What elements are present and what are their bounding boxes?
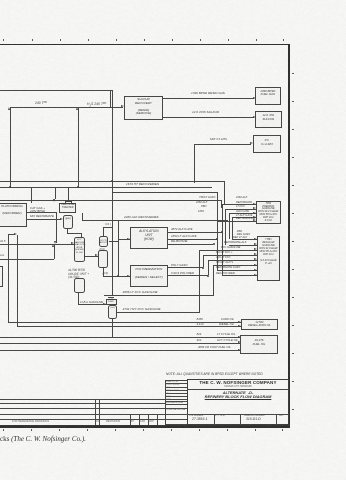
label mix reformate [30,215,54,218]
vessel under gas plant [108,305,117,319]
label C4 [105,223,110,226]
vessel FCC fractionator [74,237,86,261]
wire poly feed y276.1 [103,276,130,277]
wire LPG riser [194,144,195,183]
box polymerization unit [130,265,168,288]
wire splitterA out to bus [109,241,118,242]
wire regular row7 [217,270,257,271]
wire bus line3 y191.8 [112,192,217,193]
wire alkylate out 1 [168,232,222,233]
label above regular fan [237,231,253,237]
wire alkylate out 3 [168,244,213,245]
wire cat-gas drop x56 [56,212,57,244]
caption below sheet [0,435,86,443]
wire fan vertical b [203,255,204,268]
wire platformer feed drop [31,187,32,203]
title alternate [188,391,288,394]
wire bus line4 y200.3 [0,200,221,201]
vessel C4 splitter B [98,250,108,268]
revision strip outer lines [0,399,165,400]
wire regular row8 [222,275,257,276]
title divider [187,389,288,390]
wire fan drop x224 [224,181,225,205]
wire poly out 1 [168,267,203,268]
wire fan vertical c [208,260,209,276]
box premium gasoline [256,201,280,224]
wire premium row5 [217,221,256,222]
wire cat-gas line [27,212,56,213]
wire lt cycle oil line [0,337,241,338]
label 1674 HT RECOVERIES [126,183,168,186]
wire alk recoveries line y220.4 [82,220,228,221]
border right [288,44,290,427]
ruler ticks bottom edge [3,429,4,431]
label 1390 BPSD RESID GAS [191,92,235,95]
note above title block [166,373,280,376]
title bottom row values [192,418,207,421]
label cat gas [30,207,51,213]
wire small L top w arrow [8,234,15,235]
ruler ticks top edge [3,39,4,41]
wire reformate line w arrow [27,219,61,220]
approvals row labels [166,381,178,384]
label 12.6 LTPD SULFUR [192,111,234,115]
label [C4] below [103,272,108,275]
wire furnace oil line [8,322,241,323]
label (C4) between vessels [99,248,104,251]
vessel below FCC [74,278,86,293]
wire lt-fcc gasoline line y295 [104,295,214,296]
wire regular row3 [199,250,256,251]
wire resid gas to fuel-gas box [163,98,254,99]
box diesel furnace product [241,319,278,331]
wire furn oil riser left [8,235,9,323]
label fcc feed [0,240,5,243]
wire regular row5 [208,260,257,261]
arrow into sulfur plant [121,105,124,107]
wire fan vertical g [225,209,226,245]
wire cr cont fuel oil line [0,350,241,351]
wire poly out 2 [168,275,208,276]
box FCC gas plant [106,299,117,305]
ruler ticks right edge [292,73,294,74]
wire fan vertical h [229,213,230,239]
wire FCC to splitter y255.8 [85,256,98,257]
wire splitterB bottoms drop [103,268,104,276]
vessel under treater [63,215,74,229]
wire drop to treater w arrow [55,187,56,199]
wire sulfur feed header y107 [10,107,123,108]
wire hvy cycle oil line [0,343,241,344]
label 240 TPD [35,101,47,105]
box regular gasoline [257,236,280,281]
title block outer [187,379,288,425]
revision strip verticals [95,399,96,425]
label 41,500 B/SD italic block [68,268,91,279]
wire diesel riser left [17,235,18,327]
wire regular row6 [213,265,256,266]
title lower divider [187,414,288,415]
wire fan vertical f [222,204,223,275]
vessel C4 splitter A [99,236,109,247]
wire riser x9.9 with up arrow [10,108,11,187]
wire premium row4 [232,217,257,218]
box platforming (cut at left) [0,203,27,227]
wire premium row3 [229,213,257,214]
wire sour-gas header [0,90,112,91]
wire premium row2 [225,209,256,210]
border top [0,44,290,45]
wire bus line2 y187 [0,187,212,188]
wire fcc feed y244 [0,244,74,245]
wire regular row4 [203,255,257,256]
title company name [188,381,288,384]
wire sulfur product to sulfur box [163,117,254,118]
label 2282 ALK RECOVERIES [124,216,164,219]
junction dot [117,275,119,277]
wire treater to fcc: down, right, down [67,229,68,233]
wire regular row2 [229,245,257,246]
border bottom double [0,425,290,426]
approvals table [165,380,189,425]
box alkylation unit [130,227,168,249]
wire bus line1 y180.7 [0,181,225,182]
box sulfur recovery [124,96,162,120]
wire lower feed y258.6 with riser join [0,259,54,260]
label lower feed [0,254,4,257]
wire kerosine riser to alk line [82,213,83,221]
wire fan vertical i [232,217,233,239]
label MIX C3 LPG [210,138,243,142]
box LPG product [253,135,280,153]
wire fan vertical d [213,265,214,295]
revision strip texts [12,420,49,423]
wire gas plant vessel drop [112,319,113,338]
wire alkylate out 2 [168,239,217,240]
title bottom row labels [189,415,203,418]
wire mid vertical x117.8 [118,220,119,276]
wire drop to treater top [68,187,69,202]
wire alkylation feed [118,239,130,240]
junction dots [221,231,223,233]
wire long vertical riser x111 [110,90,111,108]
wire lower vessel down-right to gas plant [78,293,79,305]
wire premium row1 [222,204,256,205]
wire fan vertical a [199,250,200,312]
label gasoline to gas plant [80,301,105,304]
wire fan vertical e [217,192,218,270]
title bottom row dividers [214,414,215,425]
box kerosine treater [59,203,76,213]
wire splitter overhead bridge [103,227,104,236]
wire diesel oil line [17,326,241,327]
box sulfur product [255,111,282,128]
wire riser x78 with up arrow [78,108,79,187]
wire LPG line [194,144,251,145]
wire hvy fcc gasoline y311.9 [117,312,200,313]
box cut sliver left column [0,266,3,287]
box fuel gas product [255,87,280,105]
label HL 240 TPD [87,102,106,108]
label 7384 header [199,196,215,199]
wire regular row1 [232,239,257,240]
box fuel oil product [240,335,278,354]
